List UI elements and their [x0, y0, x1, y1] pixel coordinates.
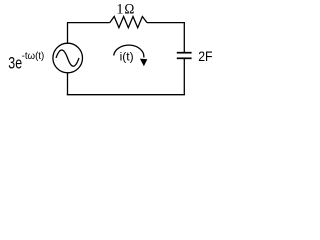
loop current arc arrow	[114, 45, 144, 57]
AC source V1 circle	[53, 43, 83, 73]
capacitor C top plate	[177, 52, 192, 54]
loop current arrowhead	[140, 59, 147, 67]
wire top-left segment	[67, 22, 110, 24]
svg-text:2F: 2F	[198, 48, 212, 64]
wire left upper (source to top)	[67, 23, 69, 44]
capacitor C bottom plate	[177, 57, 192, 59]
svg-text:1: 1	[116, 2, 123, 18]
svg-text:Ω: Ω	[124, 2, 134, 18]
wire top-right segment	[147, 22, 184, 24]
svg-text:i(t): i(t)	[120, 50, 134, 64]
AC source sine symbol	[56, 50, 79, 66]
wire bottom	[67, 94, 185, 96]
wire right lower	[183, 59, 185, 95]
wire left lower (source to bottom)	[67, 73, 69, 95]
svg-text:-tω(t): -tω(t)	[22, 51, 45, 62]
svg-text:3e: 3e	[8, 55, 22, 73]
resistor R (1 ohm)	[110, 17, 147, 28]
wire right upper (to capacitor)	[183, 22, 185, 52]
